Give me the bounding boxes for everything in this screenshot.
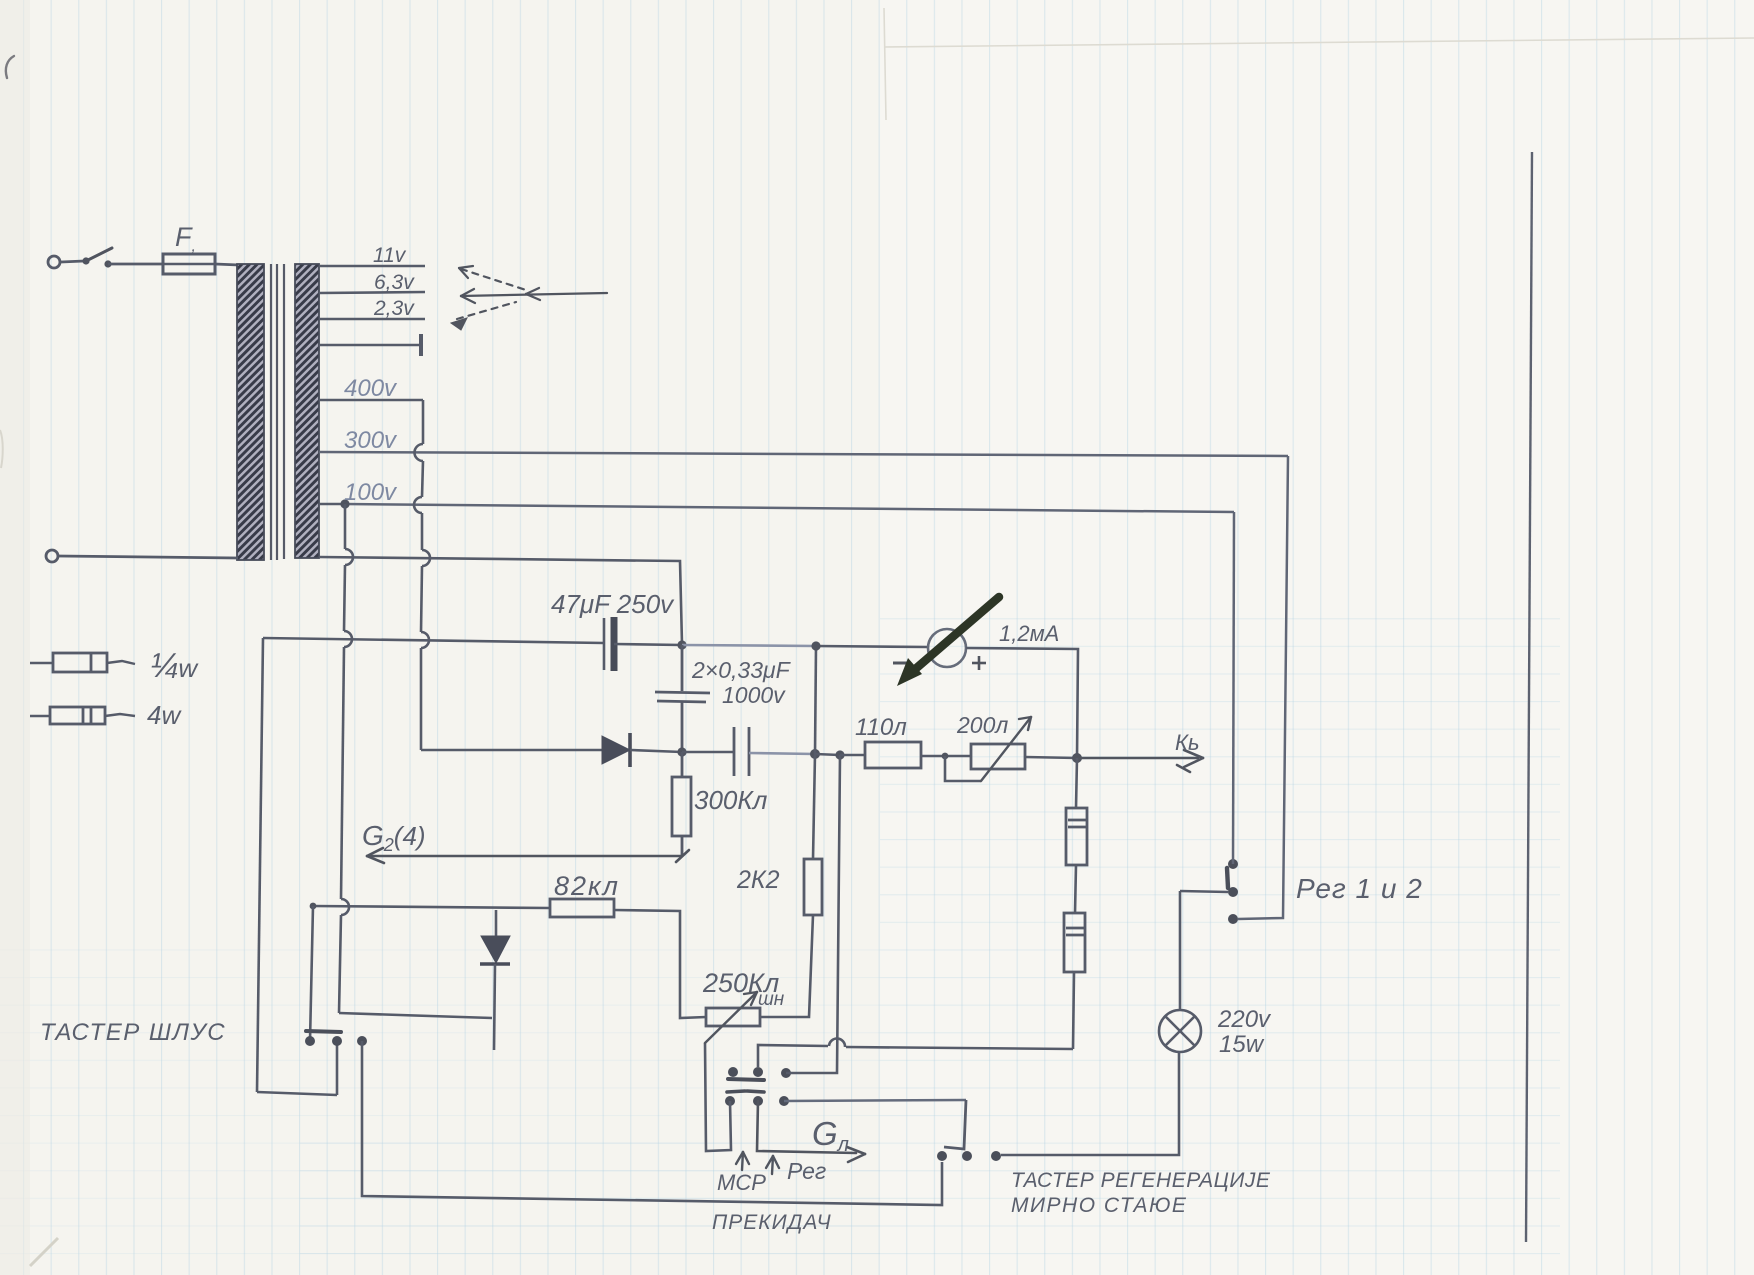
tap wire 300V long (319, 452, 1288, 456)
svg-text:МСР: МСР (717, 1170, 766, 1195)
wire N2 up to top line (815, 646, 816, 754)
wire 100V corner down to reg switch top (1233, 512, 1234, 864)
legend resistor 1/4W (30, 653, 135, 672)
svg-text:Рег: Рег (787, 1158, 826, 1184)
svg-text:300v: 300v (344, 427, 398, 454)
pot right lead up to 2K2 (760, 915, 813, 1017)
tap wire 400V (319, 399, 423, 402)
svg-text:2К2: 2К2 (736, 866, 780, 894)
wire meter right to corner and down to N5 (966, 648, 1078, 758)
svg-text:82кл: 82кл (554, 871, 620, 901)
meter thick marker arrow (913, 597, 999, 671)
capacitor C2a 0.33uF vertical (655, 645, 710, 752)
svg-text:11v: 11v (373, 244, 407, 267)
wire shunt key middle contact up (336, 1041, 339, 1095)
corner pen mark top-left (6, 56, 14, 78)
svg-text:шн: шн (758, 989, 785, 1010)
wire shunt right contact to bottom rail (362, 1041, 942, 1205)
sheet seam top-right (884, 8, 1754, 120)
tap wire bottom to 47uF node (319, 557, 682, 644)
tap wire 11V (319, 265, 425, 268)
selector arrow dashed up (459, 266, 526, 290)
vertical V2 from 400V tap with hops (414, 400, 430, 750)
node 47uF / bottom tap (677, 640, 686, 649)
input terminal top (48, 256, 84, 268)
node N2 (810, 749, 820, 759)
vertical V1 from 100V tap with hops (339, 504, 353, 1013)
resistor 2K2 (804, 754, 822, 915)
wire fuse to transformer (215, 264, 239, 265)
svg-text:400v: 400v (344, 375, 398, 402)
tap wire 100V long (345, 504, 1234, 512)
switch row2 bridge bar (727, 1091, 764, 1092)
top DC line to meter (682, 645, 816, 646)
wire row2 right to regen key (784, 1100, 966, 1101)
regen key contacts (937, 1151, 1001, 1161)
svg-text:ТАСТЕР РЕГЕНЕРАЦИЈЕ: ТАСТЕР РЕГЕНЕРАЦИЈЕ (1011, 1169, 1271, 1192)
wire 300V corner down to reg switch bottom (1238, 456, 1288, 919)
svg-text:100v: 100v (344, 479, 398, 506)
svg-text:Кь: Кь (1175, 730, 1200, 755)
switch row1 contacts (728, 1067, 791, 1078)
svg-text:ТАСТЕР ШЛУС: ТАСТЕР ШЛУС (40, 1019, 226, 1046)
wire lamp to reg switch middle (1180, 891, 1228, 892)
resistor 82K (313, 899, 614, 917)
svg-text:1000v: 1000v (722, 682, 786, 708)
svg-text:ПРЕКИДАЧ: ПРЕКИДАЧ (712, 1211, 832, 1234)
wire row2 left to 250K wiper (705, 1043, 731, 1151)
svg-text:2×0,33μF: 2×0,33μF (691, 657, 792, 683)
capacitor C2b 0.33uF series (682, 727, 815, 776)
legend resistor 4W (30, 707, 135, 724)
transformer secondary winding (295, 264, 319, 558)
shunt key bridge bar (306, 1031, 341, 1032)
selector arrow solid (461, 288, 607, 303)
wire V1 corner to diode D2 bottom (339, 1013, 492, 1018)
svg-text:G2(4): G2(4) (362, 820, 426, 855)
reg 1i2 switch (1228, 859, 1238, 924)
input terminal bottom (46, 550, 238, 562)
node N5 (1072, 753, 1082, 763)
resistor 110 ohm (840, 742, 971, 768)
wire chain bottom to switch row1 middle with hop (758, 1039, 1073, 1067)
lamp 220V 15W (1159, 891, 1201, 1052)
resistor 300K (672, 752, 691, 856)
wire to G2 with left arrowhead (367, 848, 689, 863)
tap wire 6.3V (319, 292, 425, 293)
tap wire 2.3V (319, 318, 425, 321)
svg-text:Рег 1 и 2: Рег 1 и 2 (1296, 873, 1423, 904)
rheostat 200 ohm (971, 744, 1077, 769)
wire N2 to N3 (815, 754, 840, 755)
svg-text:300Кл: 300Кл (694, 785, 768, 815)
switch S1 (82, 248, 163, 268)
diode D1 (602, 733, 682, 767)
pot 250K body (706, 1008, 760, 1026)
capacitor C1 47uF 250V (604, 617, 682, 671)
tap stub with end bar (319, 334, 421, 356)
svg-text:1,2мА: 1,2мА (999, 621, 1059, 646)
meter M1 1.2mA (928, 629, 966, 667)
wire bottom mains to primary (58, 556, 238, 558)
KB output arrow (1077, 750, 1203, 772)
node N3 (835, 750, 844, 759)
svg-text:15w: 15w (1219, 1031, 1265, 1058)
REG arrow (766, 1156, 779, 1174)
pot 250K wiper arrow (705, 992, 757, 1043)
node N1 (677, 747, 686, 756)
switch row2 contacts (725, 1096, 789, 1106)
common rail bottom wire to shunt key (257, 1092, 337, 1095)
bottom-left fold mark (30, 1238, 58, 1266)
svg-text:200л: 200л (956, 712, 1008, 738)
svg-text:47μF 250v: 47μF 250v (551, 589, 675, 619)
svg-text:2,3v: 2,3v (373, 297, 415, 320)
MCP arrow (736, 1152, 749, 1170)
common rail left vertical down (257, 638, 263, 1092)
wire row1 right contact to N3 vertical (786, 755, 840, 1073)
svg-text:6,3v: 6,3v (374, 271, 415, 294)
svg-text:¼w: ¼w (150, 647, 199, 685)
regen key lever and wire up (944, 1100, 966, 1149)
svg-text:220v: 220v (1217, 1006, 1272, 1033)
resistor chain upper (1066, 758, 1087, 913)
common rail horizontal to 47uF (263, 638, 604, 643)
shunt key contacts (305, 1036, 367, 1046)
wire shunt left contact up (310, 903, 317, 910)
resistor chain lower (1064, 913, 1085, 1049)
switch row1 bridge bar (728, 1079, 764, 1080)
svg-text:110л: 110л (855, 714, 907, 741)
wire row2 middle to G1 arrow (757, 1101, 865, 1162)
selector arrow dashed down (451, 302, 516, 330)
wire 400V corner to diode D1 (421, 749, 602, 752)
diode D2 (480, 910, 510, 1050)
junction jog below 200 ohm (942, 753, 949, 760)
svg-text:МИРНО СТАЮЕ: МИРНО СТАЮЕ (1011, 1194, 1187, 1217)
pot left lead to 82K right vertical (614, 910, 706, 1018)
transformer primary winding (237, 264, 264, 560)
transformer core (271, 264, 284, 560)
wire regen key to lamp bottom (1001, 1053, 1179, 1155)
svg-text:4w: 4w (147, 700, 182, 730)
fuse F1 (163, 254, 215, 274)
tall page line right (1526, 152, 1532, 1242)
